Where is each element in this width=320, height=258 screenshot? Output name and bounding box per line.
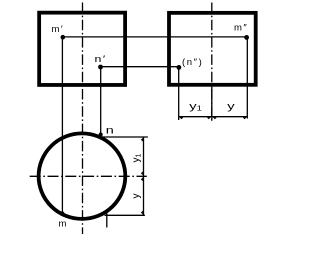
vertical center line (axis of side view)	[211, 3, 213, 121]
projection line n' down to n	[100, 67, 102, 135]
extension segment of side axis below square	[211, 86, 213, 121]
tick at top end of right dimension line	[141, 138, 143, 142]
svg-text:m: m	[59, 219, 67, 230]
point n on circle	[99, 133, 103, 137]
svg-text:y1: y1	[189, 100, 202, 113]
svg-text:y: y	[227, 100, 235, 112]
horizontal center line (top view)	[30, 175, 147, 177]
extension line at level of m (top view)	[105, 214, 145, 216]
top view circle (H projection of cylinder)	[39, 133, 126, 219]
vertical center line (axis through front view and top view)	[82, 3, 84, 235]
projection line m' down to m	[61, 37, 63, 214]
extension line from m'' down to dimension line	[246, 37, 248, 118]
point m on circle	[60, 212, 64, 216]
tick at right end of bottom dimension line	[243, 117, 247, 119]
svg-text:(n″): (n″)	[182, 57, 203, 68]
svg-text:y: y	[131, 194, 142, 199]
point n'	[98, 65, 103, 70]
ticks at middle of bottom dimension line	[207, 117, 211, 119]
dimension line y1 / y right of top view	[143, 137, 145, 215]
svg-text:n′: n′	[95, 54, 107, 64]
point m'	[61, 35, 66, 40]
tick at left end of bottom dimension line	[179, 117, 183, 119]
point m''	[244, 35, 249, 40]
projection line n' to (n'')	[101, 66, 178, 68]
front view square (V projection of cylinder)	[39, 13, 125, 85]
projection line m' to m''	[63, 36, 247, 38]
svg-text:m″: m″	[234, 23, 248, 34]
tick at bottom end of right dimension line	[141, 211, 143, 215]
svg-text:y1: y1	[131, 154, 143, 163]
side view square (W projection of cylinder)	[169, 13, 256, 85]
short stub from circle down at x=106.8	[106, 213, 108, 228]
ticks at middle of right dimension line	[141, 171, 143, 175]
dimension line y1 / y below side view	[179, 116, 248, 118]
point (n'')	[177, 65, 182, 70]
extension line from (n'') down to dimension line	[178, 67, 180, 120]
extension line from n to the right (top view)	[101, 136, 148, 138]
svg-text:n: n	[106, 124, 114, 135]
svg-text:m′: m′	[52, 24, 65, 35]
